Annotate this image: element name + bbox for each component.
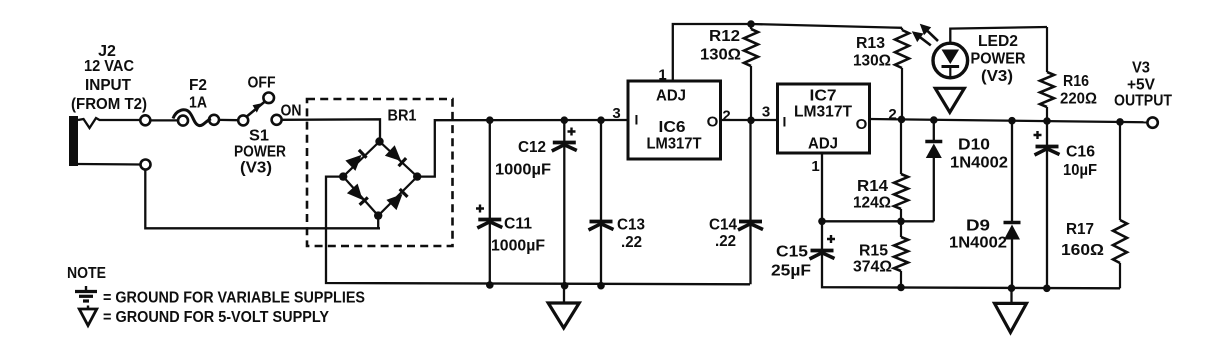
resistor R14 — [894, 119, 908, 221]
svg-text:S1: S1 — [249, 128, 269, 145]
diode D10 1N4002 — [925, 120, 942, 221]
svg-text:1N4002: 1N4002 — [949, 235, 1007, 252]
svg-text:C16: C16 — [1066, 144, 1095, 161]
bridge rectifier BR1 dashed outline — [307, 99, 453, 246]
svg-text:(FROM T2): (FROM T2) — [71, 96, 147, 113]
svg-text:ADJ: ADJ — [656, 88, 686, 105]
svg-text:124Ω: 124Ω — [853, 195, 891, 212]
bridge diamond wires — [343, 142, 417, 216]
svg-text:IC6: IC6 — [659, 119, 686, 136]
wire C11 branch — [489, 120, 491, 285]
wire LED top — [950, 27, 1047, 43]
node R17 top — [1116, 118, 1124, 126]
node input bottom terminal — [141, 160, 151, 170]
svg-text:O: O — [707, 114, 719, 131]
wire C13 branch — [600, 120, 602, 285]
wire to fuse — [150, 119, 178, 121]
capacitor C14 — [738, 222, 763, 231]
svg-text:OUTPUT: OUTPUT — [1114, 93, 1172, 110]
node C13 top — [597, 116, 605, 124]
wire IC7 output rail to output terminal — [870, 119, 1148, 122]
node D9 bottom — [1008, 284, 1016, 292]
svg-text:1000µF: 1000µF — [495, 162, 551, 179]
svg-text:130Ω: 130Ω — [700, 47, 741, 64]
node R13 bottom — [898, 116, 906, 124]
ground symbol (variable) in note — [75, 286, 97, 301]
svg-text:C12: C12 — [518, 139, 546, 156]
svg-text:LM317T: LM317T — [647, 136, 702, 153]
svg-text:1: 1 — [658, 67, 666, 84]
svg-text:V3: V3 — [1132, 60, 1150, 77]
svg-text:(V3): (V3) — [981, 68, 1013, 85]
svg-text:I: I — [783, 114, 787, 130]
svg-text:220Ω: 220Ω — [1060, 91, 1097, 108]
bridge diode top-left — [345, 155, 361, 171]
node D10 top — [930, 116, 938, 124]
wire IC7 ADJ down — [821, 153, 823, 221]
svg-text:BR1: BR1 — [388, 108, 417, 125]
resistor R12 — [744, 24, 758, 120]
node C11 bottom — [486, 281, 494, 289]
node ADJ C15 — [818, 218, 826, 226]
svg-text:IC7: IC7 — [810, 88, 837, 105]
svg-text:= GROUND FOR VARIABLE SUPPLIES: = GROUND FOR VARIABLE SUPPLIES — [103, 290, 365, 307]
node D9 top — [1008, 117, 1016, 125]
node R14 bottom — [897, 218, 905, 226]
svg-text:C13: C13 — [617, 217, 645, 234]
node C12 bottom — [561, 282, 569, 290]
svg-text:1000µF: 1000µF — [491, 238, 545, 255]
LED2 arrow 2 — [925, 29, 938, 41]
node bridge right — [413, 172, 421, 180]
svg-text:R16: R16 — [1063, 73, 1089, 90]
node bridge left — [339, 172, 347, 180]
svg-text:D10: D10 — [958, 137, 990, 154]
svg-text:25µF: 25µF — [771, 263, 811, 280]
node bridge bottom — [374, 211, 382, 219]
wire top input with plug notch — [78, 118, 141, 128]
svg-text:INPUT: INPUT — [85, 77, 131, 94]
svg-text:+5V: +5V — [1127, 77, 1155, 94]
svg-text:10µF: 10µF — [1063, 162, 1097, 179]
wire C16 branch — [1046, 121, 1048, 288]
diode D9 1N4002 — [1004, 121, 1021, 289]
svg-text:R15: R15 — [859, 243, 888, 260]
svg-text:160Ω: 160Ω — [1061, 242, 1104, 259]
svg-text:.22: .22 — [715, 233, 736, 250]
node R12 bottom / IC6 out — [747, 117, 755, 125]
connector J2 (12 VAC input jack) — [69, 116, 78, 166]
node bridge top — [375, 137, 383, 145]
op-amp/regulator IC6 LM317T — [628, 81, 721, 159]
wire bridge right to DC rail — [417, 120, 627, 177]
resistor R15 — [894, 221, 908, 287]
ground symbol (5V) in note — [79, 306, 97, 326]
wire ADJ node across to R14/D10 — [822, 220, 934, 222]
node R15 bottom — [897, 284, 905, 292]
svg-text:NOTE: NOTE — [67, 265, 106, 282]
capacitor C15 — [810, 235, 836, 259]
svg-text:ON: ON — [281, 102, 302, 119]
svg-text:3: 3 — [612, 105, 620, 122]
svg-text:2: 2 — [722, 108, 730, 125]
ground (5V) under LED2 — [935, 88, 964, 112]
wire IC6 output to node — [721, 119, 778, 121]
LED2 POWER (V3) — [933, 43, 968, 78]
svg-text:= GROUND FOR 5-VOLT SUPPLY: = GROUND FOR 5-VOLT SUPPLY — [103, 309, 329, 326]
wire bottom input — [78, 163, 140, 166]
svg-text:(V3): (V3) — [240, 160, 272, 177]
wire bottom input down and across — [145, 170, 380, 229]
wire C14 branch — [749, 120, 751, 284]
svg-text:R12: R12 — [709, 28, 740, 45]
capacitor C12 — [552, 128, 577, 152]
svg-text:OFF: OFF — [248, 75, 276, 92]
node R12 top — [747, 20, 755, 28]
ground (5V) under D9 — [1010, 288, 1012, 303]
capacitor C11 — [476, 205, 502, 229]
svg-text:D9: D9 — [966, 218, 990, 235]
svg-text:R14: R14 — [857, 178, 888, 195]
svg-text:LED2: LED2 — [978, 33, 1018, 50]
svg-text:.22: .22 — [621, 234, 642, 251]
wire bridge left to ground rail — [326, 177, 750, 285]
bridge diode top-right — [385, 145, 401, 161]
svg-text:I: I — [635, 112, 639, 128]
switch S1 — [238, 93, 281, 126]
svg-text:ADJ: ADJ — [808, 136, 838, 153]
node C12 top — [561, 116, 569, 124]
capacitor C13 — [589, 222, 614, 231]
svg-text:C14: C14 — [709, 217, 737, 234]
node R16 bottom — [1043, 117, 1051, 125]
svg-text:1A: 1A — [189, 95, 207, 112]
svg-text:130Ω: 130Ω — [853, 53, 891, 70]
node C13 bottom — [597, 282, 605, 290]
svg-text:O: O — [856, 116, 868, 133]
wire C12 branch — [563, 120, 565, 285]
node input top terminal — [140, 115, 150, 125]
svg-text:POWER: POWER — [234, 144, 286, 161]
bridge diode bottom-right — [386, 194, 402, 210]
wire IC6 ADJ to top rail — [673, 24, 751, 81]
svg-text:POWER: POWER — [971, 51, 1026, 68]
svg-text:12 VAC: 12 VAC — [84, 58, 134, 75]
resistor R17 — [1113, 122, 1127, 288]
svg-text:C11: C11 — [504, 216, 532, 233]
svg-text:R17: R17 — [1066, 221, 1094, 238]
svg-text:1: 1 — [811, 158, 819, 175]
wire switch to bridge — [282, 119, 380, 141]
wire top rail R12 to R13 — [751, 24, 902, 28]
wire bridge bottom to AC return — [377, 216, 379, 229]
capacitor C16 — [1034, 131, 1060, 155]
ground (variable supply) under C12 — [563, 286, 565, 303]
resistor R13 — [895, 28, 909, 120]
regulator IC7 LM317T — [778, 84, 870, 153]
node C16 bottom — [1043, 285, 1051, 293]
svg-text:C15: C15 — [776, 244, 808, 261]
svg-text:374Ω: 374Ω — [853, 259, 892, 276]
svg-text:1N4002: 1N4002 — [950, 155, 1008, 172]
LED2 arrow 1 — [917, 35, 930, 45]
bridge diode bottom-left — [347, 184, 363, 200]
svg-text:LM317T: LM317T — [794, 104, 852, 121]
node C11 top — [486, 116, 494, 124]
resistor R16 — [1040, 27, 1054, 121]
svg-text:F2: F2 — [189, 77, 207, 94]
svg-text:R13: R13 — [856, 35, 885, 52]
wire C15 branch — [822, 221, 1120, 288]
node V3 output terminal — [1147, 117, 1157, 127]
fuse F2 1A — [173, 110, 219, 126]
wire fuse to switch — [219, 119, 238, 122]
svg-text:3: 3 — [762, 104, 770, 121]
